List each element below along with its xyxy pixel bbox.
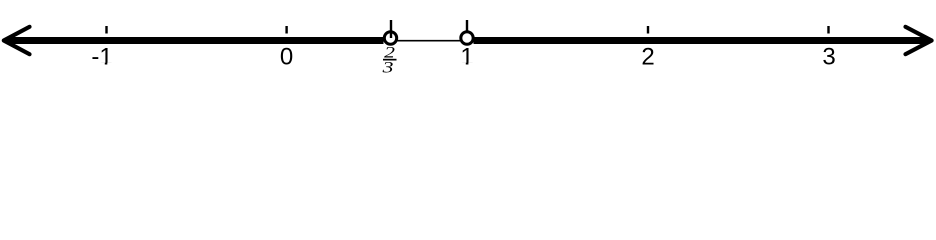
svg-text:2: 2	[641, 44, 654, 71]
svg-text:-1: -1	[91, 44, 112, 71]
svg-text:3: 3	[822, 44, 835, 71]
svg-text:3: 3	[381, 59, 393, 76]
svg-text:1: 1	[460, 44, 473, 71]
svg-text:0: 0	[280, 44, 293, 71]
